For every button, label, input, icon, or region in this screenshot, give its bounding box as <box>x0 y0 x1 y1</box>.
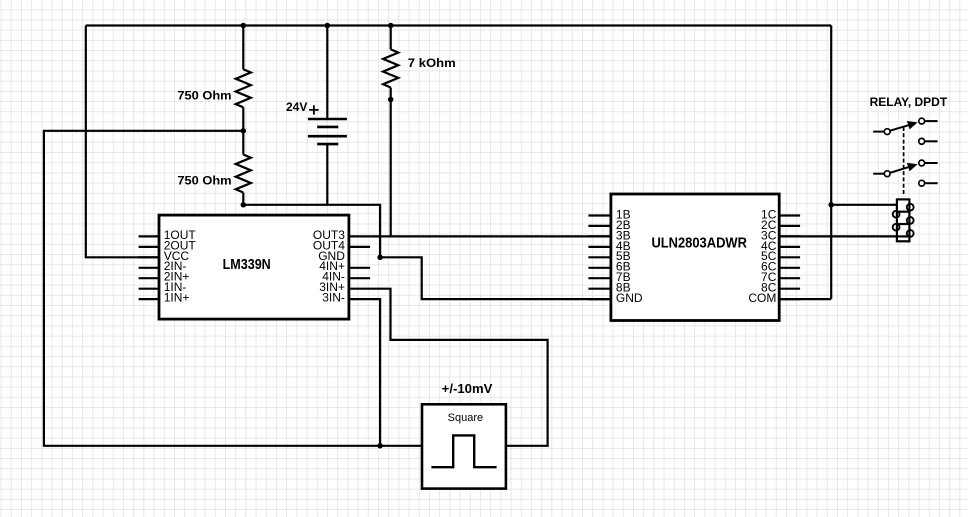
resistor R3 7 kOhm <box>383 49 398 87</box>
wire resistor R3 top lead <box>390 26 392 50</box>
U2 left pin stubs <box>588 216 611 300</box>
wire resistor R2 top lead <box>242 131 244 155</box>
junction node GND net <box>377 255 383 261</box>
relay K1 coil bumps <box>893 204 914 237</box>
source V2 square-wave glyph <box>431 435 496 467</box>
svg-text:GND: GND <box>616 291 643 305</box>
svg-text:+/-10mV: +/-10mV <box>442 382 493 396</box>
relay K1 blade 2 arrowhead <box>907 163 918 171</box>
op-amp U1 LM339N body <box>159 215 349 319</box>
relay K1 blade 1 <box>890 125 910 131</box>
svg-text:COM: COM <box>748 291 776 305</box>
svg-text:LM339N: LM339N <box>223 257 271 273</box>
IC U2 ULN2803ADWR body <box>611 194 779 321</box>
junction node square source minus <box>377 443 383 449</box>
wire VCC drop from top rail to LM339 VCC <box>86 26 159 258</box>
wire top power rail <box>86 24 831 26</box>
wire coil top to right rail <box>831 204 897 206</box>
junction node divider midpoint <box>241 128 247 134</box>
wire COM to right rail <box>779 298 831 300</box>
relay K1 blade 1 arrowhead <box>907 121 918 129</box>
svg-text:1IN+: 1IN+ <box>164 291 190 305</box>
U1 left pin stubs <box>139 236 159 299</box>
svg-text:Square: Square <box>448 412 483 424</box>
relay K1 coil body <box>897 199 910 241</box>
wire battery bottom <box>326 144 328 205</box>
junction node top rail / R3 <box>388 23 394 29</box>
wire 3IN- to divider bottom net <box>348 299 380 446</box>
wire R2 bottom to LM339 GND <box>243 205 380 257</box>
wire LM339 GND to ULN GND <box>380 257 611 299</box>
svg-text:7 kOhm: 7 kOhm <box>408 56 456 70</box>
svg-text:750 Ohm: 750 Ohm <box>177 89 231 103</box>
battery V1 24V <box>308 105 347 144</box>
relay K1 blade 2 <box>890 167 910 173</box>
wire resistor R3 bottom lead to OUT3 <box>390 88 392 237</box>
wire resistor R1 top lead <box>242 26 244 70</box>
relay K1 contact stubs <box>873 121 937 183</box>
wire OUT3 to ULN 3B <box>348 235 611 237</box>
svg-text:750 Ohm: 750 Ohm <box>177 174 231 188</box>
relay K1 contact circles <box>884 118 924 186</box>
svg-text:ULN2803ADWR: ULN2803ADWR <box>651 235 747 251</box>
junction node R2 bottom <box>241 202 247 208</box>
resistor R1 750 Ohm <box>236 69 251 107</box>
wire 3IN+ to square source plus <box>348 289 547 446</box>
wire right rail down to relay/COM <box>830 26 832 300</box>
junction node top rail / battery <box>325 23 331 29</box>
U2 right pin stubs <box>779 216 800 300</box>
relay K1 actuator dashed link <box>903 127 905 196</box>
resistor R2 750 Ohm <box>236 155 251 193</box>
junction node top rail / R1 <box>241 23 247 29</box>
U1 right pin stubs <box>349 247 370 278</box>
wire ULN 3C to coil bottom <box>779 235 897 237</box>
wire resistor R2 bottom lead <box>242 193 244 205</box>
wire battery top <box>326 26 328 120</box>
svg-text:RELAY, DPDT: RELAY, DPDT <box>870 95 948 109</box>
junction node coil top <box>828 202 834 208</box>
junction node R3 bottom <box>388 97 394 103</box>
svg-text:3IN-: 3IN- <box>322 291 345 305</box>
wire divider midpoint loop to square source minus <box>44 131 422 446</box>
svg-text:24V: 24V <box>286 100 307 114</box>
source V2 square-wave body <box>422 404 506 488</box>
wire resistor R1 bottom lead <box>242 107 244 131</box>
